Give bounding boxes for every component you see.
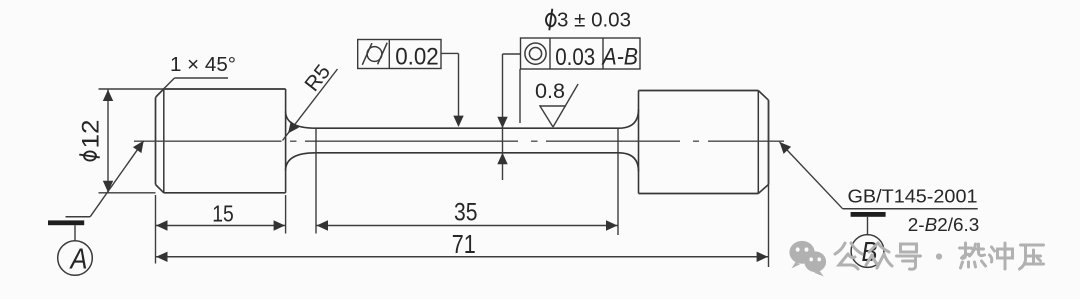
cylindricity symbol: [367, 47, 382, 62]
svg-text:GB/T145-2001: GB/T145-2001: [848, 187, 978, 207]
chamfer note underline: [175, 77, 229, 79]
cylindricity leader: [441, 52, 459, 54]
svg-text:A: A: [69, 244, 88, 276]
left head top-left chamfer edge: [156, 89, 164, 98]
phi3 upper arrowhead: [497, 117, 507, 128]
gauge section top line: [316, 127, 619, 129]
datum B circle: [851, 235, 884, 268]
dim 71 left extension line: [155, 195, 157, 264]
phi12 top arrowhead: [103, 90, 113, 101]
phi12 top extension line: [99, 88, 164, 90]
datum A thick bar: [48, 220, 84, 225]
right top R5 fillet: [619, 110, 639, 129]
dim 15 dimension line: [156, 225, 286, 227]
svg-text:2-B2/6.3: 2-B2/6.3: [908, 215, 980, 235]
phi12 bottom extension line: [99, 192, 156, 194]
dim 35 left arrowhead: [317, 220, 328, 230]
left head right edge: [285, 89, 287, 193]
svg-text:1 × 45°: 1 × 45°: [170, 54, 236, 76]
dim 71 dimension line: [156, 256, 769, 258]
dim 15 right extension line: [285, 195, 287, 234]
right head top edge: [639, 90, 759, 92]
left bottom R5 fillet: [286, 153, 316, 171]
chamfer note leader: [156, 78, 175, 97]
dim 15 left arrowhead: [156, 220, 167, 230]
right head bottom edge: [639, 193, 759, 195]
right bottom R5 fillet: [619, 153, 639, 172]
svg-text:15: 15: [212, 201, 234, 227]
gauge section bottom line: [316, 152, 619, 154]
dim 71 left arrowhead: [156, 252, 167, 262]
left head top edge: [164, 88, 286, 90]
svg-text:71: 71: [452, 229, 476, 259]
svg-text:35: 35: [454, 198, 478, 226]
datum A stem: [74, 225, 76, 241]
left head left end face: [155, 98, 157, 185]
concentricity frame drop line: [519, 69, 521, 123]
concentricity frame box: [521, 38, 641, 69]
datum A leader arrowhead: [133, 141, 144, 153]
watermark text gongzhonghao rechongya: [835, 243, 845, 254]
datum B stem: [867, 217, 869, 235]
right head right end face: [768, 100, 770, 184]
dim 35 right extension line: [617, 128, 619, 235]
watermark wechat icon: [789, 241, 814, 264]
left head chamfer boundary line: [163, 89, 165, 193]
phi12 dimension text: [78, 120, 105, 161]
datum A thin line: [66, 216, 91, 218]
left head bottom edge: [164, 192, 286, 194]
svg-text:0.8: 0.8: [535, 80, 565, 103]
right head chamfer boundary line: [757, 91, 759, 194]
datum A circle: [58, 241, 93, 276]
cylindricity leader arrowhead: [453, 116, 463, 127]
left head bottom-left chamfer edge: [156, 185, 164, 193]
svg-text:12: 12: [78, 120, 105, 149]
datum A leader line: [90, 141, 144, 217]
concentricity symbol: [525, 43, 546, 64]
centre hole leader line: [780, 142, 843, 209]
phi12 dimension line: [107, 89, 109, 193]
svg-text:0.02: 0.02: [395, 43, 439, 70]
dim 35 dimension line: [316, 225, 618, 227]
right head bottom-right chamfer edge: [758, 185, 768, 194]
cylindricity frame box: [358, 40, 441, 69]
dim 71 right extension line: [768, 100, 770, 267]
centre hole note underline: [843, 208, 978, 210]
svg-text:3 ± 0.03: 3 ± 0.03: [557, 10, 631, 32]
R5 leader line: [283, 69, 338, 141]
left top R5 fillet: [286, 112, 316, 129]
dim 15 right arrowhead: [274, 220, 285, 230]
phi3 text: [546, 14, 556, 27]
phi3 lower arrowhead: [497, 153, 507, 164]
dim 35 left extension line: [315, 128, 317, 233]
dim 71 right arrowhead: [757, 252, 768, 262]
phi3 dimension line: [502, 54, 504, 180]
axis centerline dash-dot: [134, 140, 784, 142]
phi12 bottom arrowhead: [103, 181, 113, 192]
R5 arrowhead: [288, 121, 299, 133]
roughness symbol: [540, 105, 566, 107]
svg-text:A-B: A-B: [601, 43, 638, 70]
right head left edge: [638, 91, 640, 194]
right head top-right chamfer edge: [758, 91, 768, 101]
svg-text:0.03: 0.03: [555, 44, 595, 71]
dim 35 right arrowhead: [606, 220, 617, 230]
datum B thick bar: [851, 212, 886, 217]
centre hole leader arrowhead: [780, 142, 792, 154]
concentricity frame tick to phi3 dim: [503, 53, 521, 55]
